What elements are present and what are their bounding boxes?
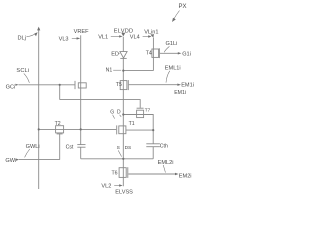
wire scan line GW horizontal (19, 159, 60, 161)
svg-text:Cst: Cst (66, 144, 74, 150)
junction GC branch (59, 84, 61, 86)
svg-text:SCLi: SCLi (16, 68, 29, 74)
wire scan line GC horizontal (19, 84, 75, 86)
svg-text:DS: DS (125, 145, 132, 151)
signal GCi label (6, 84, 19, 91)
label ED (111, 51, 119, 57)
svg-text:D: D (117, 110, 121, 116)
svg-text:T2: T2 (55, 121, 61, 127)
signal VL1 label (98, 35, 123, 41)
wire Cst bottom (80, 147, 82, 159)
svg-text:N1: N1 (106, 68, 113, 74)
svg-text:T6: T6 (112, 170, 118, 176)
svg-text:VL1: VL1 (98, 35, 108, 41)
scan line SCLi label (16, 68, 29, 83)
wire emission line EM1 (129, 84, 178, 86)
transistor T5 (116, 80, 129, 90)
data line DLj label (18, 32, 38, 41)
svg-text:EML1i: EML1i (165, 66, 181, 72)
wire Cth bottom (152, 147, 154, 159)
svg-text:DLj: DLj (18, 35, 26, 41)
svg-text:EM1i: EM1i (174, 90, 186, 96)
wire VREF vertical (80, 35, 82, 144)
svg-text:VREF: VREF (74, 29, 90, 35)
capacitor Cst (66, 144, 86, 150)
node G label (110, 110, 114, 119)
svg-text:PX: PX (179, 4, 187, 10)
power lead arrow ELVDD (121, 33, 125, 37)
signal VL2 label (101, 184, 122, 190)
svg-text:EM1i: EM1i (181, 82, 194, 88)
transistor T2 (55, 121, 64, 134)
wire data line DLj vertical (38, 28, 40, 189)
svg-text:G1Li: G1Li (166, 41, 178, 47)
svg-text:EML2i: EML2i (158, 160, 174, 166)
signal VL4 label (130, 35, 152, 41)
wire T6 gate line EM2 (128, 173, 176, 175)
svg-text:EM2i: EM2i (179, 174, 192, 180)
line G1Li label (164, 41, 177, 52)
wire T7 source lead (123, 115, 153, 144)
wire diode to N1 (122, 58, 124, 186)
svg-text:G: G (110, 110, 114, 116)
wire gate line G1 (160, 52, 179, 54)
wire T2 gate lead down (59, 134, 61, 160)
junction backgate column (152, 129, 154, 131)
svg-text:GCi: GCi (6, 85, 16, 91)
line EML1i label (165, 66, 181, 83)
transistor T4 (146, 48, 160, 58)
node S label (117, 145, 122, 156)
junction on DL (38, 128, 40, 130)
svg-text:ED: ED (111, 51, 119, 57)
transistor T7 (137, 108, 151, 118)
wire VLin1 column (152, 38, 154, 71)
svg-text:ELVSS: ELVSS (115, 190, 133, 196)
signal VL3 label (59, 37, 81, 43)
svg-text:T5: T5 (116, 82, 122, 88)
lead arrow VLin1 (151, 34, 152, 35)
line EML2i label (158, 160, 174, 173)
node N1 junction (122, 70, 124, 72)
wire ELVDD column top (122, 37, 124, 52)
svg-text:S: S (117, 145, 120, 151)
scan line GWLi label (25, 144, 40, 158)
wire node N1 horizontal (123, 70, 153, 72)
svg-text:VL3: VL3 (59, 37, 69, 43)
capacitor Cth (146, 144, 168, 150)
wire T1 gate row from DL (39, 128, 117, 130)
node D label (117, 110, 121, 117)
diode ED (120, 52, 127, 59)
svg-text:GWi: GWi (5, 158, 16, 164)
transistor T3 (75, 81, 86, 89)
transistor T1 (117, 121, 135, 134)
wire control row to T7 gate (60, 100, 141, 108)
junction Cst column (80, 128, 82, 130)
svg-text:G1i: G1i (182, 52, 191, 58)
node N1 label (106, 68, 122, 74)
transistor T6 (112, 167, 128, 178)
svg-text:VL2: VL2 (101, 184, 111, 190)
wire GC branch down (59, 85, 61, 100)
svg-text:VL4: VL4 (130, 35, 140, 41)
junction source node (122, 158, 124, 160)
pixel label PX (172, 4, 187, 22)
junction node D (122, 113, 124, 115)
wire T1 backgate to right column (126, 129, 153, 131)
wire source node row (81, 158, 154, 160)
svg-text:GWLi: GWLi (26, 144, 40, 150)
svg-text:T4: T4 (146, 51, 152, 57)
svg-text:T1: T1 (129, 121, 135, 127)
signal GWi label (5, 158, 19, 164)
svg-text:T7: T7 (145, 108, 151, 113)
svg-text:Cth: Cth (160, 144, 168, 150)
